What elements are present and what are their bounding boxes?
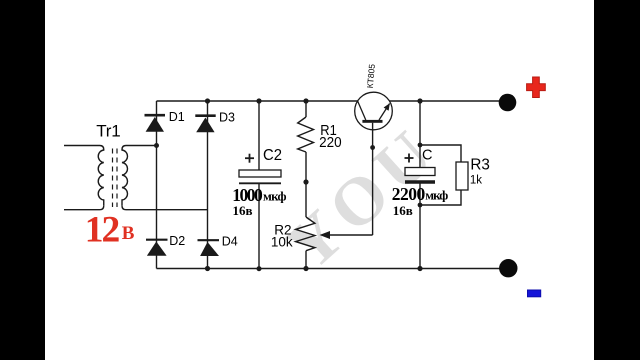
svg-text:D2: D2 xyxy=(169,234,185,248)
output terminal minus xyxy=(499,259,517,277)
svg-text:12: 12 xyxy=(85,210,121,251)
junction node: transformer top xyxy=(154,143,159,148)
red plus symbol xyxy=(527,77,546,98)
transformer primary winding xyxy=(98,150,104,206)
resistor R1 zigzag xyxy=(298,117,314,152)
svg-text:220: 220 xyxy=(319,135,342,151)
junction node: C top rail xyxy=(417,98,422,103)
svg-text:В: В xyxy=(122,223,135,244)
wire R1-R2 link xyxy=(305,152,307,217)
junction node: R1 top rail xyxy=(303,98,308,103)
resistor R2 zigzag xyxy=(296,217,315,251)
wire left bridge vertical xyxy=(156,101,158,269)
svg-text:Tr1: Tr1 xyxy=(96,122,121,141)
wire R2 bottom xyxy=(305,251,307,269)
diode D4 xyxy=(198,240,220,256)
svg-text:C: C xyxy=(422,147,432,163)
wire right bridge vertical xyxy=(207,101,209,269)
wire R1 top xyxy=(305,101,307,117)
wire C(2200) top xyxy=(419,101,421,168)
svg-text:10k: 10k xyxy=(271,234,293,249)
wire emitter vertical xyxy=(372,123,374,235)
capacitor C(2200) plates xyxy=(405,168,435,183)
junction node: C bottom rail xyxy=(417,266,422,271)
wire R3 top branch xyxy=(420,145,461,162)
svg-text:1k: 1k xyxy=(470,174,482,186)
watermark YOU xyxy=(271,111,452,285)
transistor Q1 KT805 xyxy=(355,92,393,130)
output terminal plus xyxy=(499,94,517,112)
svg-text:D4: D4 xyxy=(222,235,238,249)
svg-text:2200: 2200 xyxy=(392,184,426,204)
right black bar xyxy=(594,0,640,360)
wire bottom rail xyxy=(157,268,502,270)
svg-text:16в: 16в xyxy=(233,203,253,218)
junction node: R2 bottom rail xyxy=(303,266,308,271)
svg-text:R3: R3 xyxy=(470,157,490,174)
capacitor C(2200) plus sign xyxy=(405,154,414,163)
wiper arrow head xyxy=(320,231,331,239)
svg-text:D3: D3 xyxy=(219,111,235,125)
svg-text:мкф: мкф xyxy=(425,188,448,203)
wire C2 bottom xyxy=(258,183,260,268)
svg-text:КТ805: КТ805 xyxy=(365,63,377,88)
svg-text:мкф: мкф xyxy=(263,189,287,204)
junction node: C/R3 bottom xyxy=(418,203,423,208)
svg-text:1000: 1000 xyxy=(232,185,263,205)
junction node: C/R3 top xyxy=(418,143,423,148)
transformer secondary bottom lead xyxy=(122,206,208,210)
junction node: R1-R2 mid xyxy=(303,179,308,184)
capacitor C2 plus sign xyxy=(245,154,254,163)
wire C(2200) bottom xyxy=(419,182,421,269)
capacitor C2 plates xyxy=(239,170,281,183)
junction node: D4 bottom rail xyxy=(205,266,210,271)
wire R3 bottom branch xyxy=(420,190,461,205)
svg-text:D1: D1 xyxy=(169,110,185,124)
junction node: emitter wire xyxy=(370,145,375,150)
wire top rail left of transistor xyxy=(157,100,358,102)
transformer core dashed lines xyxy=(112,149,114,208)
transformer primary top lead xyxy=(64,146,104,150)
left black bar xyxy=(0,0,45,360)
wire top rail right of transistor xyxy=(389,100,500,102)
transformer secondary winding xyxy=(122,150,128,206)
wire wiper horizontal xyxy=(328,234,373,236)
blue minus symbol xyxy=(528,290,541,297)
junction node: D3 top rail xyxy=(205,98,210,103)
transformer secondary top lead xyxy=(122,146,157,150)
junction node: C2 top rail xyxy=(256,98,261,103)
junction node: C2 bottom rail xyxy=(257,266,262,271)
diode D1 xyxy=(145,115,166,132)
diode D3 xyxy=(195,116,215,133)
resistor R3 box xyxy=(456,162,468,190)
wire C2 top xyxy=(258,101,260,170)
svg-text:16в: 16в xyxy=(393,203,413,218)
svg-text:C2: C2 xyxy=(263,147,282,164)
transformer primary bottom lead xyxy=(64,206,104,210)
diode D2 xyxy=(146,240,168,256)
